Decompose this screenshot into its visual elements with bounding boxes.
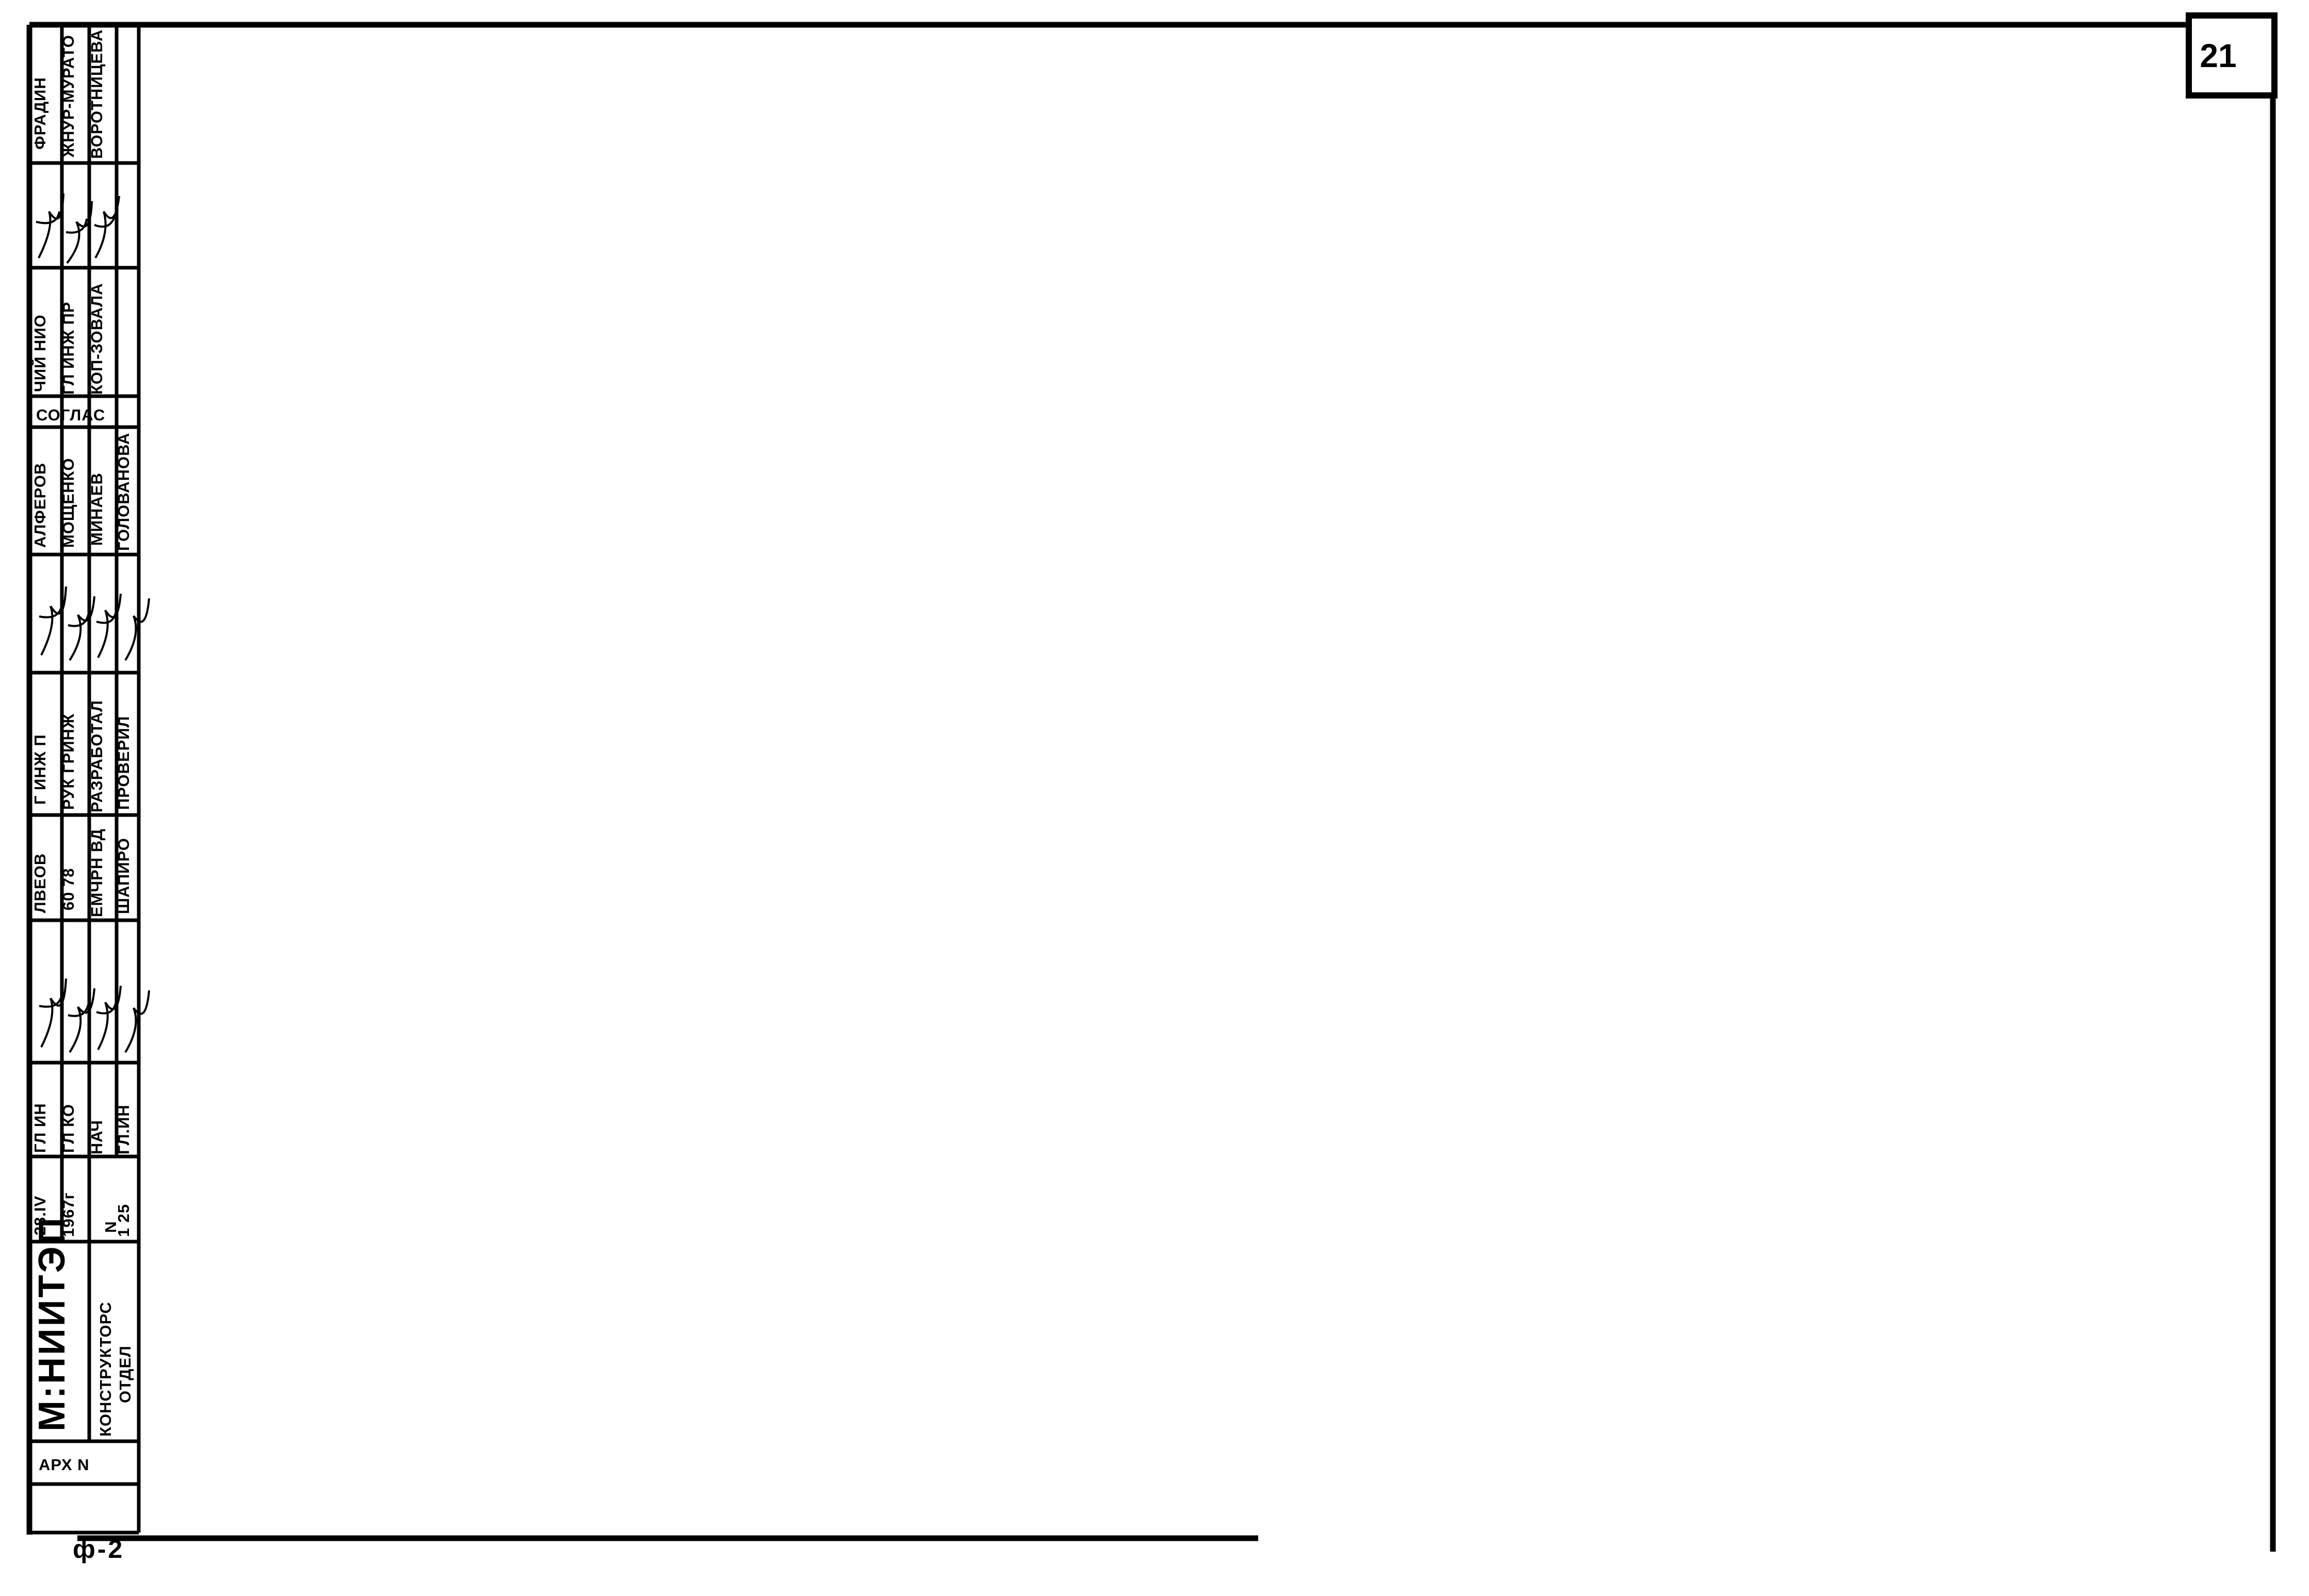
svg-text:ПРОВЕРИЛ: ПРОВЕРИЛ	[115, 716, 133, 810]
svg-text:Г ИНЖ П: Г ИНЖ П	[31, 734, 49, 805]
strip row11 dates	[31, 1192, 133, 1237]
svg-text:ЛВЕОВ: ЛВЕОВ	[31, 853, 49, 913]
strip signatures row2	[36, 193, 119, 263]
svg-text:ГЛ.ИН: ГЛ.ИН	[115, 1104, 133, 1154]
strip row3 titles	[30, 283, 106, 395]
strip signatures row9	[39, 979, 149, 1052]
svg-text:АРХ N: АРХ N	[39, 1456, 90, 1474]
svg-text:СОГЛАС: СОГЛАС	[36, 406, 105, 424]
svg-text:ф-2: ф-2	[73, 1535, 124, 1564]
svg-text:ГОЛОВАНОВА: ГОЛОВАНОВА	[115, 433, 133, 551]
svg-text:60 78: 60 78	[59, 868, 77, 910]
svg-text:ГЛ ИНЖ ПР: ГЛ ИНЖ ПР	[59, 302, 77, 395]
svg-text:МИНАЕВ: МИНАЕВ	[88, 473, 106, 546]
svg-text:АЛФЕРОВ: АЛФЕРОВ	[31, 463, 49, 548]
strip АРХ N row	[39, 1456, 90, 1474]
svg-text:ОТДЕЛ: ОТДЕЛ	[116, 1345, 134, 1403]
svg-text:НАЧ: НАЧ	[88, 1120, 106, 1154]
svg-text:21: 21	[2200, 37, 2236, 74]
svg-text:ВОРОТНИЦЕВА: ВОРОТНИЦЕВА	[88, 29, 106, 159]
svg-text:КОНСТРУКТОРС: КОНСТРУКТОРС	[96, 1301, 115, 1437]
strip org block	[31, 1216, 134, 1437]
svg-text:ФРАДИН: ФРАДИН	[31, 77, 49, 150]
sheet number box 21	[2189, 15, 2274, 95]
svg-text:1 25: 1 25	[115, 1204, 133, 1237]
svg-text:ЕМЧРН ВД: ЕМЧРН ВД	[88, 828, 106, 917]
svg-text:ЖНУР-МУРАТО: ЖНУР-МУРАТО	[59, 35, 77, 158]
strip row7 titles	[31, 700, 133, 812]
svg-text:М:НИИТЭП: М:НИИТЭП	[31, 1216, 73, 1431]
svg-text:ШАПИРО: ШАПИРО	[115, 838, 133, 914]
svg-text:КОП-ЗОВАЛА: КОП-ЗОВАЛА	[88, 283, 106, 395]
strip row5 names	[31, 433, 133, 551]
LEFT STAMP STRIP	[29, 25, 139, 1533]
strip row10 titles	[31, 1103, 133, 1154]
svg-text:РАЗРАБОТАЛ: РАЗРАБОТАЛ	[88, 700, 106, 812]
svg-text:МОЩЕНКО: МОЩЕНКО	[59, 458, 77, 548]
svg-text:РУК ГРИНЖ: РУК ГРИНЖ	[59, 713, 77, 810]
svg-text:ЧИЙ НИО: ЧИЙ НИО	[30, 314, 49, 392]
strip row8	[31, 828, 133, 917]
strip texts row1 names	[31, 29, 106, 159]
svg-text:ГЛ КО: ГЛ КО	[59, 1104, 77, 1153]
svg-text:ГЛ ИН: ГЛ ИН	[31, 1103, 49, 1153]
strip signatures row6	[39, 587, 149, 660]
